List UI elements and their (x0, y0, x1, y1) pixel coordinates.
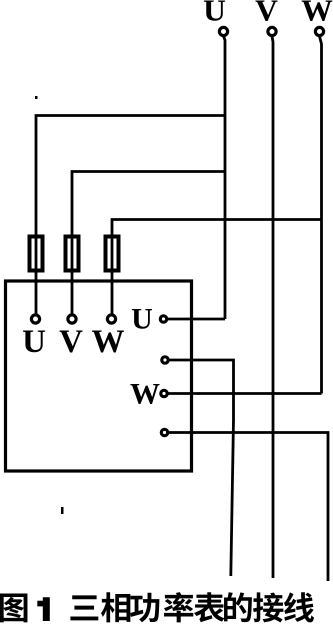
wire voltage tap U to fuse FU1 (36, 116, 225, 236)
terminal current U in (160, 316, 166, 322)
terminal voltage V inside meter (68, 315, 76, 323)
svg-text:W: W (92, 324, 125, 360)
wire current W out to load (168, 433, 328, 582)
label U (meter voltage terminal) (22, 324, 46, 360)
wire fuse FU3 to meter voltage terminal W (111, 273, 114, 315)
wire current W in from phase W (168, 392, 322, 395)
svg-text:W: W (301, 0, 333, 28)
speck artifact below meter box (61, 507, 64, 514)
label W (meter current terminal W) (130, 378, 160, 411)
terminal current U out (162, 357, 168, 363)
wire current U out to load (169, 360, 234, 576)
node U (phase U supply label) (203, 0, 226, 28)
label V (meter voltage terminal) (59, 324, 83, 360)
fuse FU1 (30, 234, 43, 273)
wire fuse FU1 to meter voltage terminal U (35, 273, 38, 315)
wire phase U vertical main (224, 36, 226, 319)
fuse FU3 (106, 234, 119, 273)
terminal voltage W inside meter (107, 315, 115, 323)
label U (meter current terminal U) (131, 303, 153, 336)
label W (meter voltage terminal) (92, 324, 125, 360)
svg-text:U: U (203, 0, 226, 28)
wire voltage tap V to fuse FU2 (72, 172, 225, 236)
terminal current W out (161, 429, 167, 435)
node W (phase W supply label) (301, 0, 333, 28)
speck artifact near tap U (35, 96, 38, 99)
caption 图1 三相功率表的接线 (0, 592, 314, 622)
wire voltage tap W to fuse FU3 (112, 220, 322, 236)
terminal W (supply terminal circle) (315, 27, 323, 35)
wire phase W vertical main (320, 36, 322, 393)
wire current U in from phase U (167, 318, 225, 321)
svg-text:U: U (22, 324, 46, 360)
svg-text:V: V (255, 0, 278, 28)
svg-text:W: W (130, 378, 160, 411)
wire phase V vertical main (272, 36, 273, 578)
svg-text:V: V (59, 324, 83, 360)
svg-text:U: U (131, 303, 153, 336)
fuse FU2 (66, 234, 79, 273)
terminal current W in (161, 390, 167, 396)
terminal U (supply terminal circle) (219, 27, 227, 35)
terminal V (supply terminal circle) (268, 27, 276, 35)
wire fuse FU2 to meter voltage terminal V (71, 273, 74, 315)
power meter box (three-phase wattmeter) (6, 281, 192, 471)
terminal voltage U inside meter (31, 315, 39, 323)
node V (phase V supply label) (255, 0, 278, 28)
